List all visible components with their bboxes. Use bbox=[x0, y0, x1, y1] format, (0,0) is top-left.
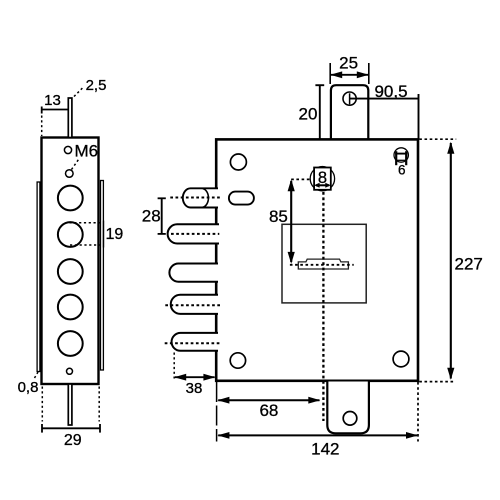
vertical dashed centerline through spindle/cylinder bbox=[322, 192, 324, 421]
plate hole 4 bbox=[58, 295, 83, 320]
small hole B bbox=[66, 170, 74, 178]
plate hole 2 bbox=[58, 222, 83, 247]
bottom tab hole bbox=[343, 412, 357, 426]
plate hole 5 bbox=[58, 331, 83, 356]
dotted extension top-right corner bbox=[419, 138, 456, 140]
bolt B4 centerline bbox=[165, 304, 221, 306]
leader 2,5 bbox=[74, 88, 83, 97]
bolt B4 bbox=[171, 295, 218, 314]
svg-text:28: 28 bbox=[142, 207, 161, 226]
spindle 8 mini dimension arrows bbox=[316, 184, 329, 186]
bottom mounting tab bbox=[327, 382, 369, 434]
small hole bottom bbox=[67, 368, 73, 374]
hole bottom-right of body bbox=[393, 351, 409, 367]
dimension 68 bbox=[218, 399, 319, 401]
svg-text:13: 13 bbox=[44, 92, 61, 109]
dimension 29 line bbox=[42, 427, 100, 429]
dimension 19 dotted lines bbox=[70, 222, 104, 224]
dimension 13 bbox=[42, 109, 69, 111]
key cylinder profile bbox=[298, 259, 348, 269]
plate hole 1 bbox=[58, 186, 83, 211]
dimension 85 arrow bbox=[290, 181, 292, 262]
extension line left for 68/142 bbox=[216, 382, 218, 442]
bolt B1 inner end arc bbox=[203, 189, 209, 208]
svg-text:68: 68 bbox=[259, 401, 278, 420]
dotted leader to spindle symbol bbox=[291, 178, 310, 180]
faceplate bottom tab bbox=[68, 384, 72, 425]
dimension 227 arrow bbox=[450, 143, 452, 379]
dimension 28 bbox=[161, 198, 163, 234]
lock body outline bbox=[216, 139, 418, 380]
bolt B2 bbox=[168, 224, 219, 243]
dotted extension bottom-right corner bbox=[419, 381, 455, 383]
svg-text:38: 38 bbox=[186, 380, 203, 397]
dimension 25 line bbox=[331, 74, 368, 76]
svg-text:142: 142 bbox=[311, 440, 339, 459]
left side rail bbox=[37, 182, 40, 372]
faceplate top tab bbox=[68, 98, 72, 138]
svg-text:227: 227 bbox=[455, 254, 483, 273]
svg-text:29: 29 bbox=[64, 432, 82, 449]
svg-text:6: 6 bbox=[398, 163, 406, 178]
dimension 25 extension lines bbox=[329, 63, 331, 84]
plate hole 3 bbox=[58, 259, 83, 284]
right side rail bbox=[101, 181, 104, 371]
M6 hole bbox=[64, 146, 71, 153]
dimension 29 extensions dotted bbox=[41, 387, 43, 422]
hole top-left of body bbox=[230, 154, 246, 170]
bolt B5 bbox=[172, 333, 218, 351]
svg-text:20: 20 bbox=[299, 105, 318, 124]
svg-text:2,5: 2,5 bbox=[86, 77, 107, 94]
svg-text:M6: M6 bbox=[75, 142, 99, 161]
top tab hole center tick bbox=[349, 93, 351, 104]
top tab hole bbox=[343, 92, 356, 105]
spindle symbol: square bbox=[314, 168, 331, 190]
leader 0,8 bbox=[35, 372, 39, 378]
dotted keyhole centerline bbox=[290, 264, 354, 266]
bolt B3 bbox=[169, 264, 218, 282]
latch pill inside body bbox=[229, 192, 254, 205]
faceplate plate bbox=[42, 138, 99, 385]
bolt B1 (top round bolt crossing faceplate) bbox=[183, 188, 218, 207]
dimension 38 bbox=[175, 376, 215, 378]
leader M6 bbox=[72, 160, 79, 170]
dimension 90,5 leader bbox=[350, 98, 419, 100]
svg-text:90,5: 90,5 bbox=[374, 82, 407, 101]
cylinder escutcheon square bbox=[282, 224, 366, 303]
bolt B2 centerline bbox=[171, 233, 219, 235]
dotted extension for 38 bbox=[173, 353, 175, 379]
svg-text:19: 19 bbox=[106, 226, 124, 243]
dimension 142 bbox=[218, 434, 417, 436]
svg-text:85: 85 bbox=[269, 207, 288, 226]
hole bottom-left of body bbox=[230, 353, 245, 368]
svg-text:25: 25 bbox=[339, 54, 358, 73]
top mounting tab bbox=[331, 85, 368, 140]
svg-text:0,8: 0,8 bbox=[18, 379, 39, 396]
bolt B1 centerline bbox=[170, 197, 221, 199]
spindle symbol: circle bbox=[310, 167, 334, 191]
screw symbol top-right bbox=[394, 148, 408, 165]
bolt B5 centerline bbox=[165, 342, 221, 344]
dotted extension right for 142 bbox=[417, 382, 419, 442]
dimension 20 line bbox=[319, 85, 321, 139]
